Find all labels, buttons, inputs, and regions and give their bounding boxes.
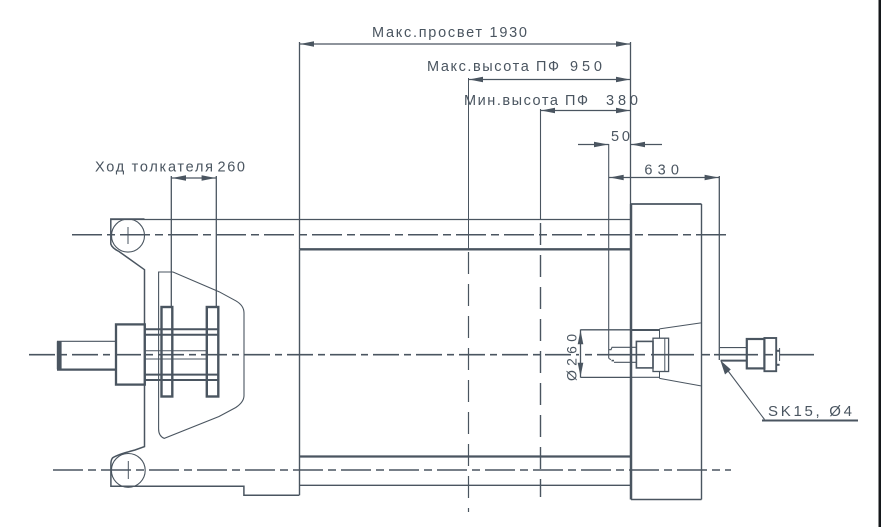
bottom lug axis centerline [53, 469, 731, 471]
left bracket outline [111, 219, 299, 495]
right fitting: tube bottom line [721, 360, 747, 362]
dimension D7 bottom arrow [578, 363, 584, 377]
flange bottom edge [631, 499, 702, 501]
shaft bottom line [57, 369, 116, 371]
dimension D6 right extension line [215, 176, 217, 308]
dimension D3 Мин.высота ПФ 380 : dim line [541, 110, 631, 112]
dimension D4 left arrow (outside, pointing right) [594, 142, 608, 148]
dimension D7 top extension line [581, 329, 632, 331]
right fitting: coupler body [764, 338, 776, 371]
flange hole lower wall [632, 376, 660, 378]
dimension D3 left extension line (solid then dashed hidden) [540, 109, 542, 220]
left fitting: tube bottom line with jog [609, 358, 637, 362]
left fitting: tube top line with jog [609, 347, 637, 349]
dimension D2 right arrow [616, 77, 630, 83]
svg-text:950: 950 [570, 59, 602, 75]
shaft collar block [116, 324, 145, 384]
top lug plate line [111, 219, 631, 221]
cylinder bottom edge [300, 455, 631, 457]
dimension D6 right arrow [202, 175, 216, 181]
svg-text:630: 630 [644, 163, 679, 179]
dimension D1 Макс.просвет 1930 : dim line [300, 43, 631, 45]
right flange plate [631, 204, 702, 500]
dimension D5 "630" : dim line [609, 177, 719, 179]
flange left face [630, 204, 633, 500]
svg-text:260: 260 [218, 160, 246, 176]
dimension D4 extension line x=608.7 down to fitting [608, 144, 610, 358]
flange right face [701, 204, 703, 500]
dimension D2 left extension line (solid then dashed hidden) [468, 78, 470, 249]
dimension D4 right arrow (outside, pointing left) [631, 142, 645, 148]
main horizontal centerline (right part explicit dashes) [585, 354, 814, 356]
top lug axis centerline [72, 234, 731, 236]
right fitting: outlet stub bottom [776, 364, 779, 366]
pusher plate 2 (right disc) [207, 307, 219, 397]
dimension D2 left arrow [469, 77, 483, 83]
upper tie rail top line [145, 328, 219, 330]
cylinder left edge [299, 249, 301, 495]
top lug hole crosshair [127, 227, 129, 244]
upper tie rail bottom line [145, 334, 219, 336]
bottom lug hole circle [111, 454, 145, 488]
dimension D5 right extension line down to right fitting [718, 176, 720, 360]
dimension D1 right arrow [616, 41, 630, 47]
left fitting: union nut [636, 341, 653, 368]
shaft end cap [57, 341, 62, 369]
flange hole upper wall [632, 329, 660, 331]
svg-text:Ход толкателя: Ход толкателя [95, 160, 213, 176]
right fitting: tube top line [720, 347, 747, 349]
funnel top line [660, 323, 701, 329]
flange top edge [631, 203, 702, 205]
leader arrow to SK15 label [720, 360, 731, 374]
funnel left bottom connector [659, 372, 661, 379]
dimension D7 bottom extension line [581, 376, 632, 378]
top lug hole circle [112, 219, 145, 252]
cylinder body outline [300, 249, 631, 495]
bell housing curved outline [159, 272, 244, 438]
left fitting: tube jog mark [612, 360, 615, 362]
bottom lug hole crosshair [127, 461, 129, 479]
dimension D6 left extension line [170, 176, 172, 308]
dimension D7 Ø260 vertical : dim line [580, 330, 582, 378]
svg-text:Мин.высота ПФ: Мин.высота ПФ [464, 93, 588, 109]
dimension D5 right arrow [705, 175, 719, 181]
lower tie rail bottom line [145, 379, 219, 381]
lower tie rail top line [145, 374, 219, 376]
funnel left top connector [659, 329, 661, 338]
right fitting: outlet stub end [779, 348, 781, 361]
leader line [727, 370, 765, 420]
dimension D5 left arrow [610, 175, 624, 181]
shaft top line [57, 340, 116, 342]
dimension D2 Макс.высота ПФ 950 : dim line [469, 79, 631, 81]
dimension D6 Ход толкателя 260 : dim line [171, 177, 216, 179]
bottom lug plate line [300, 484, 631, 486]
dimension D3 right arrow [616, 108, 630, 114]
leader underline [762, 420, 858, 422]
pusher plate 1 (left disc) [162, 307, 173, 397]
right fitting: outlet stub top [776, 350, 779, 352]
left fitting: coupler body [653, 338, 669, 371]
dimension D4 "50" : dim line pieces outside extension lines [578, 144, 609, 146]
main horizontal centerline (left part) [29, 354, 579, 356]
push rod upper line [145, 350, 207, 352]
left fitting: coupler body inner line [664, 338, 666, 371]
dimension D6 left arrow [172, 175, 186, 181]
funnel bottom line [660, 378, 701, 386]
svg-text:Макс.просвет 1930: Макс.просвет 1930 [372, 25, 527, 41]
dimension D3 left arrow [541, 108, 555, 114]
dimension D1 left arrow [300, 41, 314, 47]
dimension D1 left extension line [299, 42, 301, 249]
dimension D1 right extension line [630, 42, 632, 204]
svg-text:SK15, Ø4: SK15, Ø4 [768, 403, 852, 420]
scan page right border bar [879, 0, 881, 527]
cylinder top edge [300, 248, 631, 250]
svg-text:380: 380 [606, 93, 638, 109]
push rod lower line [145, 358, 207, 360]
dimension D7 top arrow [578, 330, 584, 344]
right fitting: union nut [747, 339, 765, 368]
